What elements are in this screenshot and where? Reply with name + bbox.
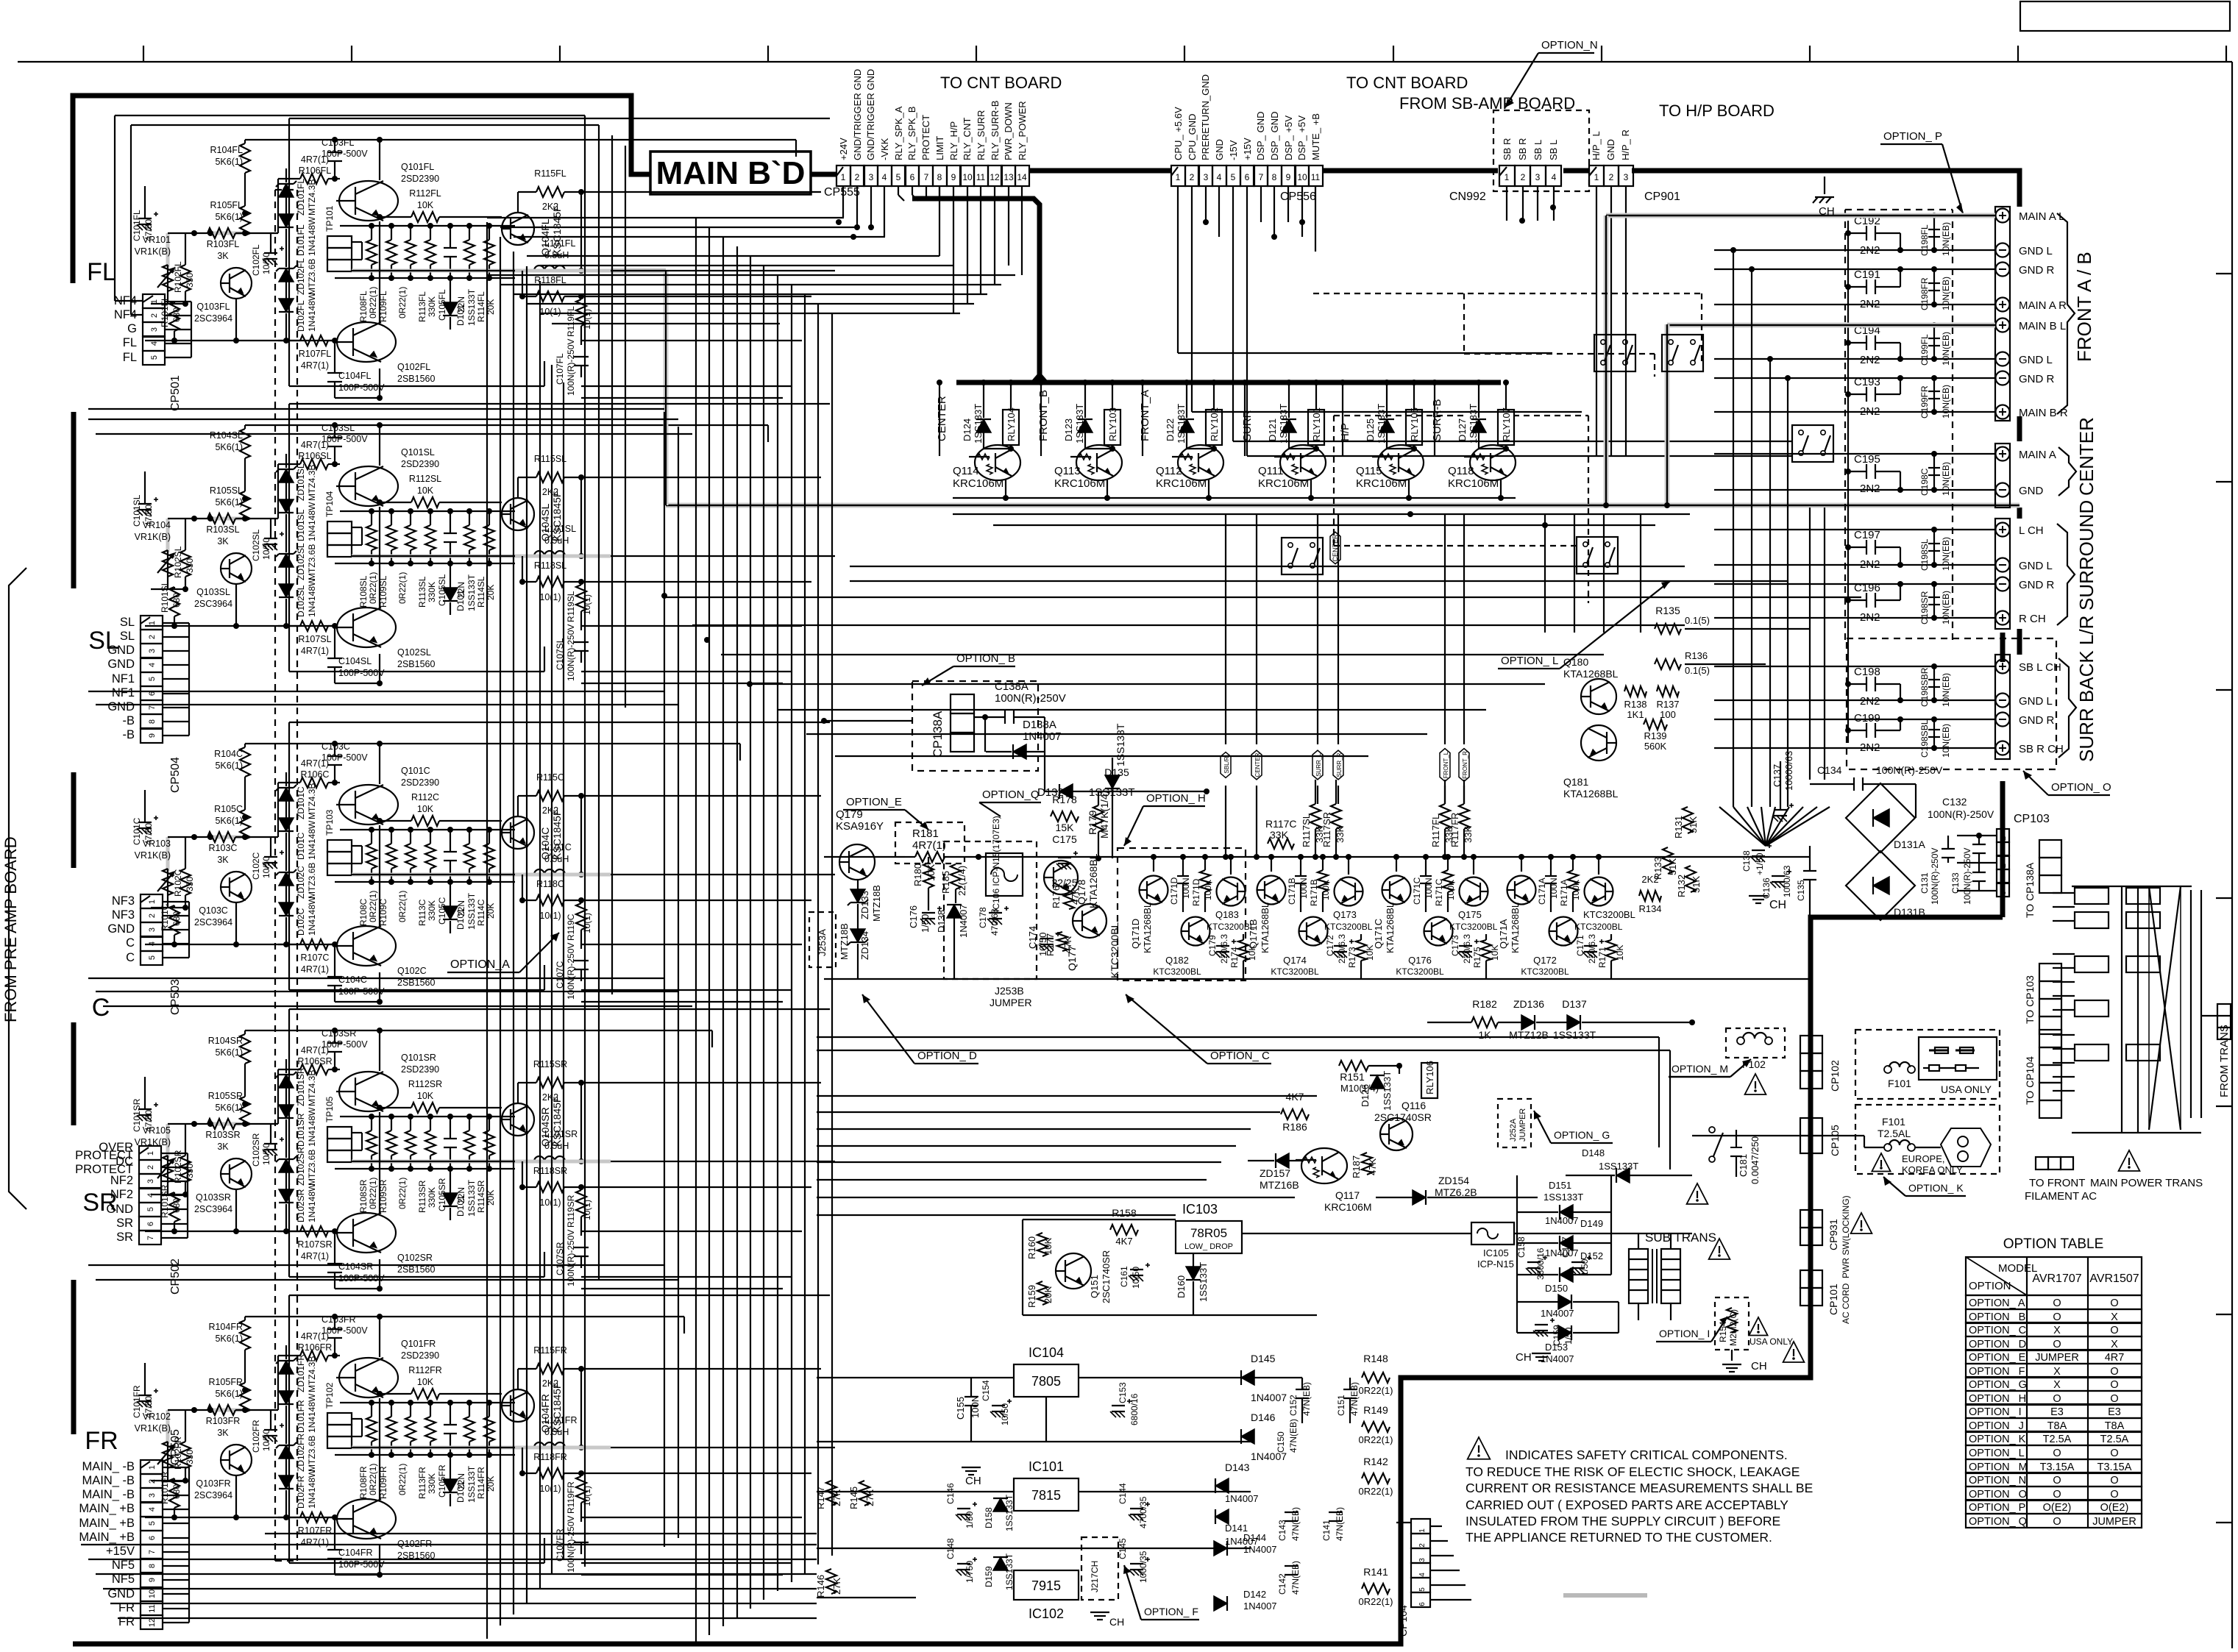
svg-text:R112SR: R112SR	[408, 1079, 442, 1089]
svg-text:C198FR: C198FR	[1919, 277, 1930, 310]
svg-text:R106FR: R106FR	[298, 1342, 333, 1353]
svg-text:R104FR: R104FR	[208, 1322, 243, 1332]
svg-text:OPTION TABLE: OPTION TABLE	[2003, 1236, 2104, 1252]
svg-text:330K: 330K	[427, 1473, 437, 1494]
svg-text:Q176: Q176	[1408, 955, 1432, 966]
svg-text:1: 1	[841, 172, 846, 182]
svg-text:R113FR: R113FR	[417, 1467, 427, 1499]
svg-text:Q111: Q111	[1258, 465, 1283, 477]
svg-text:NF1: NF1	[112, 672, 135, 686]
svg-text:CH: CH	[1109, 1616, 1124, 1628]
svg-text:330K: 330K	[427, 296, 437, 317]
svg-text:CARRIED OUT ( EXPOSED PARTS AR: CARRIED OUT ( EXPOSED PARTS ARE ACCEPTAB…	[1466, 1498, 1788, 1512]
svg-text:MUTE_ +B: MUTE_ +B	[1310, 113, 1321, 160]
svg-text:R117FR: R117FR	[1449, 813, 1460, 847]
svg-text:4R7(1): 4R7(1)	[301, 1251, 329, 1261]
svg-text:C171: C171	[1575, 935, 1585, 956]
svg-text:1SS133T: 1SS133T	[466, 1465, 477, 1503]
svg-text:1N4148W: 1N4148W	[307, 502, 317, 541]
svg-text:0R22(1): 0R22(1)	[368, 1464, 378, 1495]
svg-text:R119SL: R119SL	[566, 591, 576, 622]
svg-text:TP105: TP105	[324, 1096, 335, 1122]
svg-text:OPTION_ F: OPTION_ F	[1969, 1366, 2025, 1378]
svg-text:O: O	[2110, 1489, 2118, 1500]
svg-text:R102C: R102C	[173, 869, 183, 897]
svg-text:100N(R)-250V: 100N(R)-250V	[1962, 848, 1972, 905]
svg-text:47N(EB): 47N(EB)	[1335, 1507, 1345, 1541]
svg-text:TO CNT BOARD: TO CNT BOARD	[1346, 74, 1468, 92]
svg-text:MTZ12B: MTZ12B	[1509, 1029, 1549, 1041]
svg-text:LIMIT: LIMIT	[934, 136, 945, 160]
svg-text:1SS133T: 1SS133T	[1004, 1494, 1015, 1531]
svg-text:L101FL: L101FL	[544, 238, 575, 249]
svg-text:C198SL: C198SL	[1919, 538, 1930, 571]
svg-text:R187: R187	[1351, 1156, 1362, 1178]
svg-text:O: O	[2053, 1297, 2061, 1309]
svg-text:OPTION_ L: OPTION_ L	[1501, 655, 1558, 667]
svg-text:6: 6	[1418, 1602, 1427, 1606]
svg-text:220/6.3: 220/6.3	[1587, 934, 1597, 964]
svg-text:47/50: 47/50	[143, 219, 154, 241]
svg-text:KTC3200BL: KTC3200BL	[1449, 922, 1498, 932]
svg-text:D148: D148	[1582, 1147, 1605, 1158]
svg-text:D131A: D131A	[1894, 839, 1925, 850]
svg-text:KTC3200BL: KTC3200BL	[1324, 922, 1373, 932]
svg-text:C131: C131	[1919, 872, 1930, 894]
svg-text:C199FR: C199FR	[1919, 385, 1930, 419]
svg-text:33K: 33K	[1270, 829, 1289, 841]
svg-text:11: 11	[148, 1604, 157, 1612]
svg-text:1N4148W: 1N4148W	[307, 1183, 317, 1222]
svg-text:2SC1740SR: 2SC1740SR	[1374, 1111, 1432, 1123]
svg-text:ZD154: ZD154	[1438, 1175, 1469, 1186]
svg-text:10K: 10K	[926, 864, 937, 881]
svg-text:OPTION_ I: OPTION_ I	[1659, 1328, 1710, 1339]
svg-text:R112C: R112C	[411, 792, 439, 802]
svg-text:R105C: R105C	[214, 804, 243, 814]
svg-text:3: 3	[148, 928, 157, 932]
svg-text:4R7(1): 4R7(1)	[301, 1537, 329, 1548]
svg-text:1: 1	[1505, 172, 1510, 182]
svg-text:2: 2	[1521, 172, 1526, 182]
svg-text:+24V: +24V	[838, 138, 849, 160]
svg-text:10(1): 10(1)	[582, 913, 592, 933]
svg-text:CPU_GND: CPU_GND	[1187, 113, 1198, 160]
svg-text:R159: R159	[1026, 1285, 1037, 1308]
svg-text:THE APPLIANCE RETURNED TO THE: THE APPLIANCE RETURNED TO THE CUSTOMER.	[1466, 1530, 1772, 1545]
svg-text:FRONT_L: FRONT_L	[1443, 751, 1449, 778]
svg-text:1SS133T: 1SS133T	[1278, 404, 1289, 444]
svg-text:SR: SR	[116, 1217, 133, 1230]
svg-text:DSP_ +5V: DSP_ +5V	[1296, 115, 1307, 160]
svg-text:10(1): 10(1)	[582, 594, 592, 615]
svg-text:GND: GND	[1605, 139, 1616, 160]
svg-text:1N4148W: 1N4148W	[307, 1107, 317, 1147]
svg-text:T8A: T8A	[2105, 1420, 2125, 1432]
svg-text:D131B: D131B	[1894, 906, 1925, 918]
svg-text:1: 1	[148, 621, 157, 625]
svg-text:NF1: NF1	[112, 686, 135, 699]
svg-text:SR: SR	[116, 1231, 133, 1244]
svg-text:C171A: C171A	[1537, 877, 1547, 905]
svg-text:0R22(1): 0R22(1)	[397, 1178, 408, 1209]
svg-text:51K: 51K	[1667, 858, 1678, 875]
svg-text:C146: C146	[945, 1483, 956, 1504]
svg-text:100P-500V: 100P-500V	[322, 752, 368, 763]
svg-text:330K: 330K	[427, 1187, 437, 1208]
svg-text:0R22(1): 0R22(1)	[368, 891, 378, 922]
svg-text:C134: C134	[1817, 764, 1842, 776]
svg-text:MAIN POWER TRANS: MAIN POWER TRANS	[2090, 1177, 2203, 1189]
svg-text:R117SL: R117SL	[1301, 813, 1312, 847]
svg-text:+15V: +15V	[106, 1545, 135, 1558]
svg-text:1SS133T: 1SS133T	[1599, 1161, 1638, 1172]
svg-text:FRONT_A: FRONT_A	[1139, 390, 1151, 441]
svg-text:680: 680	[171, 911, 182, 926]
svg-text:0R22(1): 0R22(1)	[397, 287, 408, 318]
svg-text:MAIN_ -B: MAIN_ -B	[82, 1460, 135, 1473]
svg-text:MTZ3.6B: MTZ3.6B	[307, 1436, 317, 1472]
svg-text:D160: D160	[1176, 1275, 1187, 1298]
svg-text:LOW_ DROP: LOW_ DROP	[1184, 1242, 1233, 1251]
svg-text:2SC3964: 2SC3964	[194, 917, 232, 928]
svg-text:2SC3964: 2SC3964	[194, 599, 232, 609]
svg-text:100P-500V: 100P-500V	[338, 382, 385, 393]
svg-text:PWR SW(LOCKING): PWR SW(LOCKING)	[1841, 1195, 1851, 1278]
svg-text:CP931: CP931	[1827, 1219, 1839, 1250]
svg-text:10K: 10K	[1042, 1238, 1054, 1255]
svg-text:R107SL: R107SL	[298, 634, 331, 644]
svg-text:2SB1560: 2SB1560	[397, 374, 435, 384]
svg-text:C175: C175	[1052, 833, 1077, 845]
svg-text:C171C: C171C	[1412, 877, 1422, 905]
svg-text:C104FL: C104FL	[338, 371, 372, 381]
svg-text:51K: 51K	[1691, 876, 1702, 893]
svg-text:OPTION_ G: OPTION_ G	[1554, 1129, 1610, 1141]
svg-text:2K2: 2K2	[542, 1378, 558, 1389]
svg-text:C101FL: C101FL	[132, 210, 142, 241]
svg-text:0R22(1): 0R22(1)	[368, 572, 378, 604]
svg-text:MODEL: MODEL	[1998, 1262, 2037, 1275]
svg-text:10/50: 10/50	[261, 538, 271, 560]
svg-text:C197: C197	[1854, 529, 1880, 541]
svg-text:INDICATES SAFETY CRITICAL COMP: INDICATES SAFETY CRITICAL COMPONENTS.	[1505, 1448, 1788, 1462]
svg-text:1N4007: 1N4007	[1541, 1308, 1574, 1319]
svg-text:1N4007: 1N4007	[1225, 1493, 1259, 1504]
svg-text:3K: 3K	[217, 1428, 229, 1438]
svg-text:1N4148W: 1N4148W	[307, 896, 317, 936]
svg-text:D138A: D138A	[1023, 719, 1056, 731]
svg-text:C199: C199	[1854, 712, 1880, 724]
svg-text:3: 3	[1624, 172, 1629, 182]
svg-text:X: X	[2053, 1366, 2061, 1378]
svg-text:C155: C155	[955, 1397, 966, 1420]
svg-text:JUMPER: JUMPER	[2092, 1516, 2136, 1528]
svg-text:10/50: 10/50	[261, 1143, 271, 1165]
svg-text:2SB1560: 2SB1560	[397, 659, 435, 669]
svg-text:47/50: 47/50	[143, 1110, 154, 1132]
svg-text:0R22(1): 0R22(1)	[368, 287, 378, 318]
svg-text:Q114: Q114	[953, 465, 979, 477]
svg-text:D138: D138	[936, 910, 947, 933]
svg-text:10K: 10K	[417, 200, 434, 210]
svg-text:E3: E3	[2108, 1406, 2121, 1418]
svg-text:C101FR: C101FR	[132, 1385, 142, 1418]
svg-text:C142: C142	[1277, 1573, 1287, 1595]
svg-text:L101SR: L101SR	[544, 1129, 578, 1139]
svg-text:R135: R135	[1655, 605, 1680, 616]
svg-text:1SS133T: 1SS133T	[1543, 1192, 1583, 1203]
svg-text:RLY101: RLY101	[1311, 407, 1322, 441]
svg-text:1: 1	[1418, 1528, 1427, 1533]
svg-text:MAIN B`D: MAIN B`D	[656, 155, 806, 191]
svg-text:20K: 20K	[1042, 1286, 1054, 1303]
svg-text:10: 10	[1297, 172, 1307, 182]
svg-text:TO CNT BOARD: TO CNT BOARD	[940, 74, 1062, 92]
svg-text:KTA1268BL: KTA1268BL	[1260, 902, 1271, 953]
svg-text:C: C	[92, 994, 110, 1022]
svg-text:MAIN_ -B: MAIN_ -B	[82, 1488, 135, 1501]
svg-text:ZD133: ZD133	[859, 891, 870, 919]
svg-text:2SD2390: 2SD2390	[401, 777, 439, 788]
svg-text:JUMPER: JUMPER	[2035, 1352, 2079, 1364]
svg-text:OPTION_ L: OPTION_ L	[1969, 1448, 2025, 1459]
svg-text:2K2: 2K2	[542, 805, 558, 816]
svg-text:VR1K(B): VR1K(B)	[135, 532, 171, 542]
svg-text:R117C: R117C	[1265, 818, 1297, 830]
svg-text:L CH: L CH	[2019, 524, 2044, 537]
svg-text:3: 3	[1999, 891, 2008, 895]
svg-text:J253B: J253B	[995, 985, 1024, 997]
svg-text:1N4007: 1N4007	[1023, 730, 1062, 743]
svg-text:R178: R178	[1052, 794, 1077, 805]
svg-text:R151: R151	[1340, 1071, 1365, 1083]
svg-text:KRC106M: KRC106M	[1156, 477, 1207, 490]
svg-text:CENTER: CENTER	[2075, 417, 2097, 496]
svg-text:RLY_SURR: RLY_SURR	[976, 110, 987, 160]
svg-text:X: X	[2111, 1311, 2118, 1323]
svg-text:FL: FL	[123, 336, 137, 349]
svg-text:C138A: C138A	[995, 680, 1029, 693]
svg-text:5: 5	[148, 677, 157, 681]
svg-text:0R22(1): 0R22(1)	[1359, 1385, 1393, 1396]
svg-text:D146: D146	[1251, 1411, 1276, 1423]
svg-text:R182: R182	[1472, 998, 1497, 1010]
svg-text:100N: 100N	[1549, 877, 1559, 899]
svg-text:3K: 3K	[217, 855, 229, 865]
svg-text:R106FL: R106FL	[299, 165, 332, 176]
svg-text:OPTION_E: OPTION_E	[846, 796, 902, 808]
svg-text:C135: C135	[1796, 880, 1806, 901]
svg-text:7: 7	[148, 705, 157, 710]
svg-text:IC105: IC105	[1483, 1247, 1509, 1258]
svg-text:1SS133T: 1SS133T	[466, 288, 477, 326]
svg-text:R139: R139	[1644, 730, 1666, 741]
svg-text:C138: C138	[1741, 850, 1752, 872]
svg-text:RLY104: RLY104	[1006, 407, 1017, 441]
svg-text:14: 14	[1017, 172, 1027, 182]
svg-text:1N4148W: 1N4148W	[307, 292, 317, 332]
svg-text:MTZ3.6B: MTZ3.6B	[307, 544, 317, 580]
svg-text:220/6.3: 220/6.3	[1462, 934, 1472, 964]
svg-text:R171D: R171D	[1191, 878, 1201, 906]
svg-text:R108SR: R108SR	[358, 1179, 369, 1213]
svg-text:C171D: C171D	[1169, 877, 1179, 905]
svg-text:2: 2	[150, 313, 159, 318]
svg-text:KTC3200BL: KTC3200BL	[1109, 922, 1120, 978]
svg-text:10N(EB): 10N(EB)	[1941, 385, 1951, 419]
svg-text:KRC106M: KRC106M	[1324, 1201, 1372, 1213]
svg-text:9: 9	[951, 172, 956, 182]
svg-text:OPTION_ H: OPTION_ H	[1969, 1393, 2026, 1405]
svg-text:C191: C191	[1854, 268, 1880, 281]
svg-text:10/50: 10/50	[261, 252, 271, 274]
svg-text:Q171B: Q171B	[1248, 919, 1259, 949]
svg-text:1SS133T: 1SS133T	[466, 892, 477, 930]
svg-text:X: X	[2111, 1339, 2118, 1350]
svg-text:5: 5	[896, 172, 901, 182]
svg-text:KSA916Y: KSA916Y	[836, 820, 884, 833]
svg-text:R CH: R CH	[2019, 613, 2046, 625]
svg-text:D144: D144	[1243, 1532, 1266, 1543]
svg-text:RLY_SPK_B: RLY_SPK_B	[906, 107, 917, 160]
svg-text:100P-500V: 100P-500V	[338, 1273, 385, 1283]
svg-text:Q118: Q118	[1448, 465, 1474, 477]
svg-text:C173: C173	[1450, 935, 1460, 956]
svg-text:R134: R134	[1638, 903, 1661, 914]
svg-text:5: 5	[148, 1521, 157, 1525]
svg-text:R186: R186	[1282, 1121, 1307, 1133]
svg-text:10N(EB): 10N(EB)	[1941, 724, 1951, 758]
svg-text:RLY_CNT: RLY_CNT	[962, 118, 973, 160]
svg-text:FRONT_B: FRONT_B	[1037, 390, 1050, 441]
svg-text:CP901: CP901	[1644, 191, 1680, 203]
svg-text:KTA1268BL: KTA1268BL	[1087, 853, 1099, 908]
svg-text:X: X	[2053, 1325, 2061, 1336]
svg-text:RLY105: RLY105	[1409, 407, 1420, 441]
svg-text:5K6(1): 5K6(1)	[215, 497, 243, 508]
svg-text:C158: C158	[1516, 1236, 1527, 1258]
svg-text:1/50: 1/50	[920, 914, 931, 933]
svg-text:13: 13	[1003, 172, 1014, 182]
svg-text:D152: D152	[1580, 1250, 1603, 1261]
svg-text:H/P_ R: H/P_ R	[1620, 129, 1631, 160]
svg-text:220/6.3: 220/6.3	[1219, 934, 1229, 964]
svg-text:MAIN A: MAIN A	[2019, 449, 2056, 461]
svg-text:100P-500V: 100P-500V	[338, 1559, 385, 1570]
svg-text:330K: 330K	[427, 900, 437, 921]
svg-text:47N(EB): 47N(EB)	[1301, 1382, 1312, 1416]
svg-text:100N(R)-250V: 100N(R)-250V	[566, 624, 576, 681]
svg-text:1: 1	[148, 900, 157, 904]
svg-text:C103SR: C103SR	[322, 1028, 356, 1039]
svg-text:4700/35: 4700/35	[1138, 1496, 1148, 1528]
svg-text:SURR-B: SURR-B	[1431, 399, 1443, 441]
svg-text:FROM PRE AMP BOARD: FROM PRE AMP BOARD	[1, 836, 20, 1022]
svg-text:D137: D137	[1562, 998, 1587, 1010]
svg-text:CURRENT OR RESISTANCE MEASUREM: CURRENT OR RESISTANCE MEASUREMENTS SHALL…	[1466, 1481, 1813, 1495]
svg-text:2: 2	[855, 172, 860, 182]
svg-text:10: 10	[148, 1589, 157, 1598]
svg-text:D101C: D101C	[296, 832, 306, 860]
svg-text:C133: C133	[1950, 872, 1961, 894]
svg-text:12: 12	[990, 172, 1000, 182]
svg-text:2SC3964: 2SC3964	[194, 1490, 232, 1500]
svg-text:8: 8	[937, 172, 942, 182]
svg-text:TP103: TP103	[324, 809, 335, 836]
svg-text:OPTION_ D: OPTION_ D	[1969, 1339, 2026, 1350]
svg-text:KRC106M: KRC106M	[1448, 477, 1499, 490]
svg-text:OPTION_ A: OPTION_ A	[1969, 1297, 2025, 1309]
svg-text:C103SL: C103SL	[322, 423, 355, 433]
svg-text:D151: D151	[1549, 1180, 1571, 1191]
svg-text:C102C: C102C	[251, 852, 261, 880]
svg-text:100N: 100N	[1424, 877, 1434, 899]
svg-text:FROM TRANS: FROM TRANS	[2218, 1025, 2231, 1097]
svg-text:Q171D: Q171D	[1130, 919, 1141, 949]
svg-text:4R7: 4R7	[2105, 1352, 2125, 1364]
svg-text:CH: CH	[1769, 899, 1786, 911]
svg-text:GND L: GND L	[2019, 560, 2053, 572]
svg-text:R119FL: R119FL	[566, 306, 576, 337]
svg-text:C199FL: C199FL	[1919, 334, 1930, 366]
svg-text:CP505: CP505	[169, 1429, 182, 1465]
svg-text:1N4007: 1N4007	[1545, 1247, 1579, 1258]
svg-text:2: 2	[148, 635, 157, 639]
svg-text:1SS133T: 1SS133T	[466, 574, 477, 611]
svg-text:D102FL: D102FL	[296, 300, 306, 332]
svg-text:Q102FL: Q102FL	[397, 362, 430, 372]
svg-text:6: 6	[1245, 172, 1250, 182]
svg-text:SB L CH: SB L CH	[2019, 661, 2061, 674]
svg-text:D153: D153	[1545, 1342, 1568, 1353]
svg-text:1SS133T: 1SS133T	[1382, 1071, 1393, 1111]
svg-text:CP504: CP504	[169, 757, 182, 793]
svg-text:CN992: CN992	[1449, 191, 1486, 203]
svg-text:C153: C153	[1118, 1382, 1128, 1403]
svg-text:Q174: Q174	[1283, 955, 1307, 966]
svg-text:C198: C198	[1854, 666, 1880, 678]
svg-text:ZD102C: ZD102C	[296, 866, 306, 899]
svg-text:Q175: Q175	[1458, 909, 1482, 920]
svg-text:KTA1268BL: KTA1268BL	[1510, 902, 1521, 953]
svg-text:R119FR: R119FR	[566, 1481, 576, 1514]
svg-text:R107SR: R107SR	[297, 1239, 332, 1250]
svg-text:CP501: CP501	[169, 375, 182, 411]
svg-text:TP101: TP101	[324, 205, 335, 232]
svg-text:51K: 51K	[1688, 816, 1699, 833]
svg-text:2: 2	[146, 1165, 155, 1169]
svg-text:KTC3200BL: KTC3200BL	[1521, 966, 1569, 977]
svg-text:7: 7	[148, 1550, 157, 1554]
svg-text:0.1(5): 0.1(5)	[1685, 615, 1710, 626]
svg-text:2SC1740SR: 2SC1740SR	[1101, 1250, 1112, 1303]
svg-text:D150: D150	[1545, 1283, 1568, 1294]
svg-text:1N4007: 1N4007	[1541, 1353, 1574, 1364]
svg-text:R112FL: R112FL	[409, 188, 441, 199]
svg-text:10(1): 10(1)	[539, 307, 561, 317]
svg-text:C104SR: C104SR	[338, 1261, 373, 1272]
svg-text:FRONT_R: FRONT_R	[1462, 751, 1468, 779]
svg-text:0R22(1): 0R22(1)	[397, 891, 408, 922]
svg-text:MTZ18B: MTZ18B	[839, 923, 850, 960]
svg-text:ZD101SL: ZD101SL	[296, 463, 306, 501]
svg-text:R106C: R106C	[301, 769, 330, 780]
svg-text:5: 5	[146, 1207, 155, 1211]
svg-text:CENTER: CENTER	[936, 396, 948, 441]
svg-text:DSP_ GND: DSP_ GND	[1255, 112, 1266, 160]
svg-text:T8A: T8A	[2047, 1420, 2067, 1432]
